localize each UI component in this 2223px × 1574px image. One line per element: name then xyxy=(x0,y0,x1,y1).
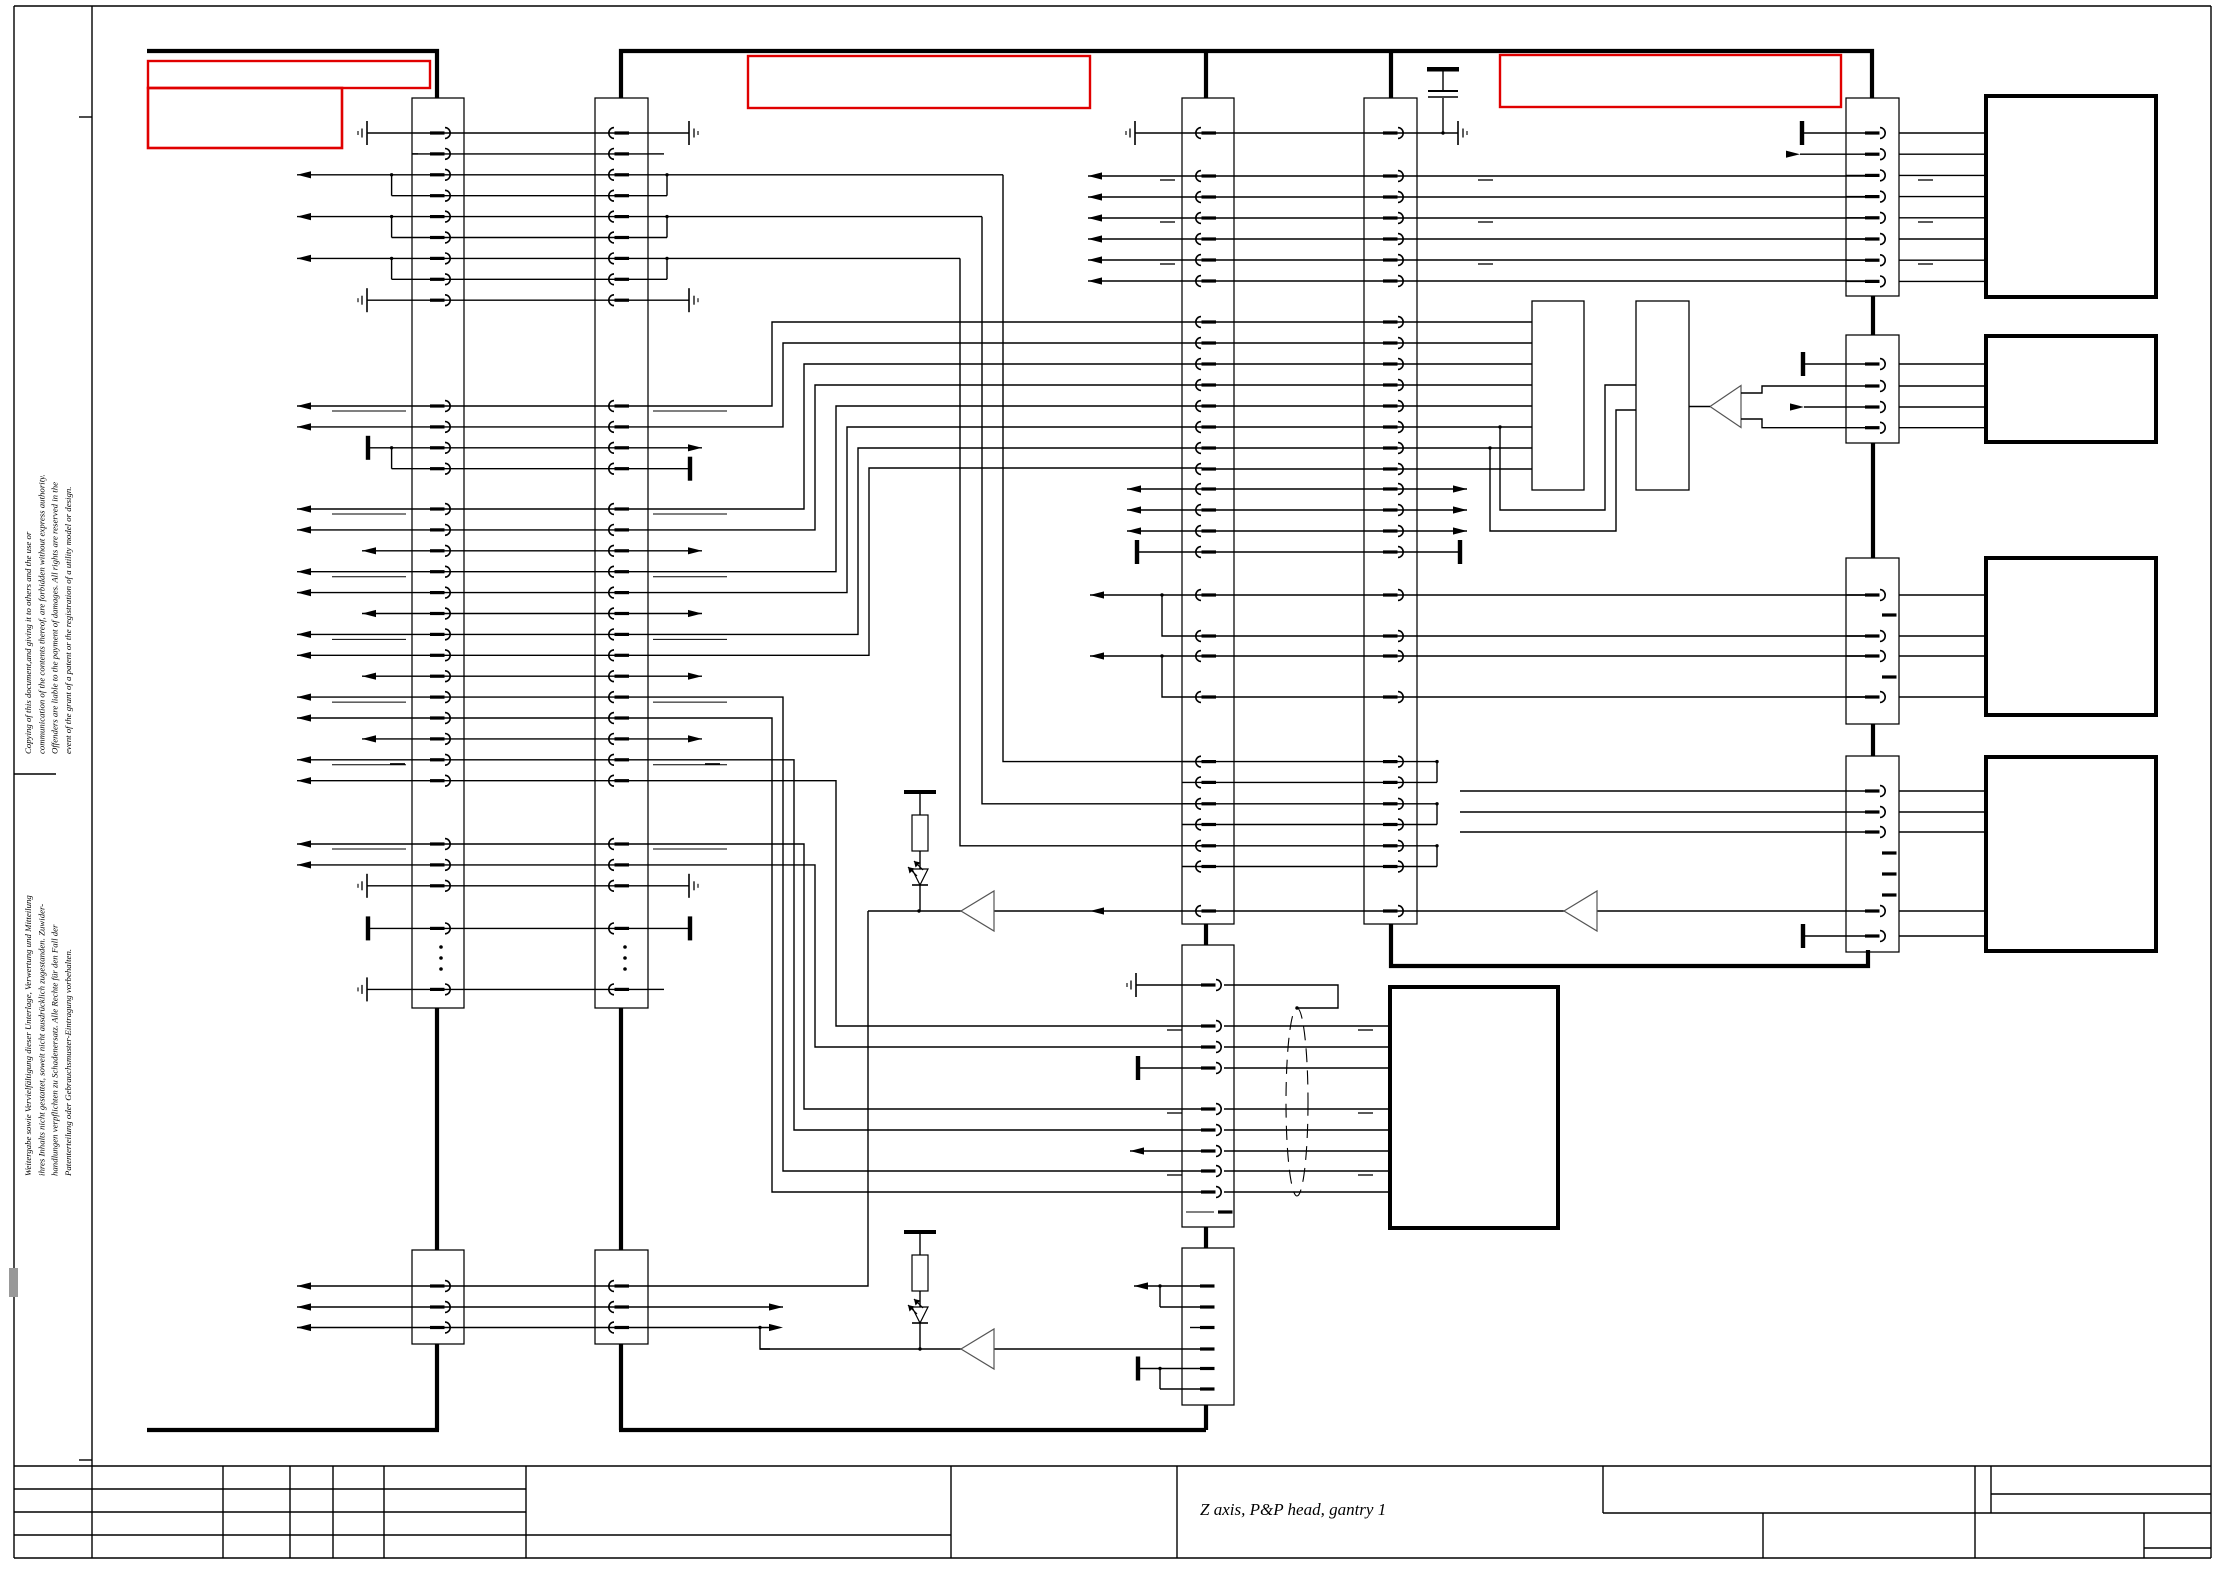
svg-text:Copying of this document,and g: Copying of this document,and giving it t… xyxy=(23,531,33,754)
svg-text:handlungen verpflichten zu Sch: handlungen verpflichten zu Schadenersatz… xyxy=(50,924,60,1176)
svg-text:Patenterteilung oder Gebrauchs: Patenterteilung oder Gebrauchsmuster-Ein… xyxy=(63,949,73,1177)
svg-text:communication of the contents: communication of the contents thereof, a… xyxy=(36,474,46,754)
svg-text:ihres Inhalts nicht gestattet,: ihres Inhalts nicht gestattet, soweit ni… xyxy=(36,904,46,1176)
svg-text:Z axis, P&P head, gantry 1: Z axis, P&P head, gantry 1 xyxy=(1200,1500,1386,1519)
svg-text:Weitergabe sowie Vervielfältig: Weitergabe sowie Vervielfältigung dieser… xyxy=(23,895,33,1176)
svg-text:Offenders are liable to the pa: Offenders are liable to the payment of d… xyxy=(50,482,60,754)
svg-text:event of the grant of a patent: event of the grant of a patent or the re… xyxy=(63,487,73,754)
